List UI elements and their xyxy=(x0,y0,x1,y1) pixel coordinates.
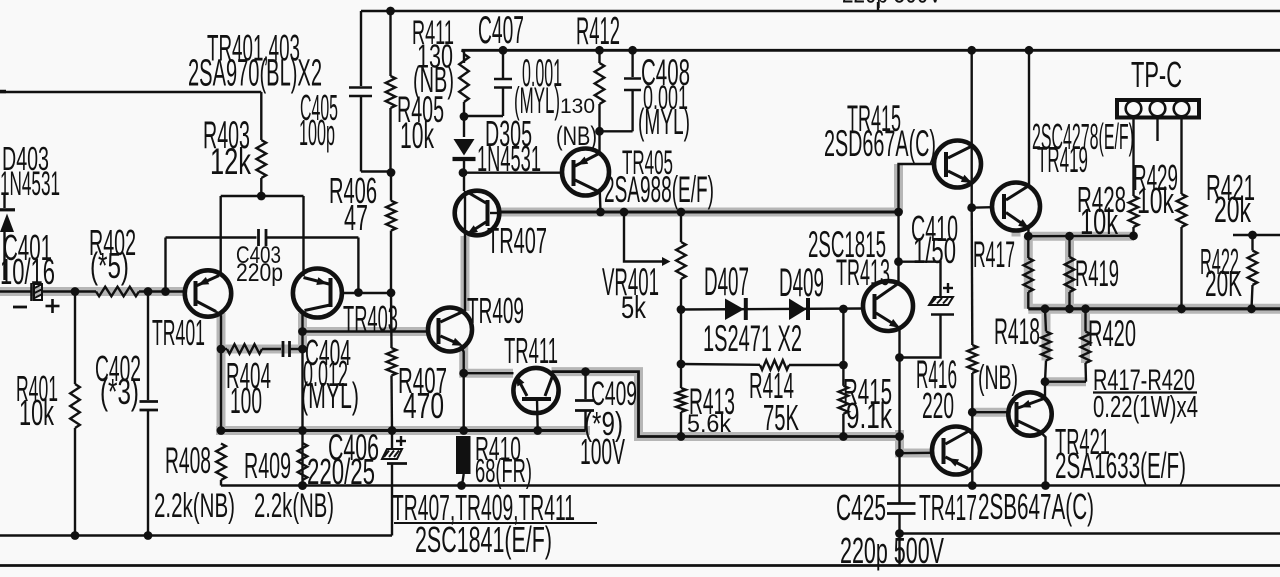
label D409 xyxy=(779,260,824,305)
svg-text:R420: R420 xyxy=(1088,312,1136,354)
wire ground bus left xyxy=(0,534,392,536)
svg-text:100V: 100V xyxy=(580,431,625,472)
wire R418 R420 bottom xyxy=(1045,381,1086,383)
label D403 1N4531 xyxy=(0,141,60,203)
wire rail to TR419 base node xyxy=(967,50,992,212)
test point TP-C xyxy=(1117,100,1199,141)
capacitor C403 xyxy=(166,229,363,297)
transistor TR405 xyxy=(562,131,609,212)
label C410 1/50 xyxy=(911,208,958,271)
diode D305 xyxy=(453,117,476,192)
svg-text:(MYL): (MYL) xyxy=(638,101,690,142)
svg-text:130: 130 xyxy=(560,95,595,118)
svg-text:TR413: TR413 xyxy=(836,251,890,293)
svg-text:1/50: 1/50 xyxy=(913,230,956,271)
resistor R415 xyxy=(839,305,849,437)
resistor R402 xyxy=(71,287,185,297)
label 2SC1815 TR413 xyxy=(808,223,890,293)
resistor R404 xyxy=(217,344,281,354)
label TR403 xyxy=(343,298,398,339)
svg-text:100p: 100p xyxy=(299,112,335,153)
resistor R409 xyxy=(298,443,308,480)
label R429 10k xyxy=(1133,157,1178,221)
highlighted signal path (grey marker trace) xyxy=(0,164,1280,453)
transistor TR413 xyxy=(863,281,913,331)
svg-text:220: 220 xyxy=(922,385,954,426)
svg-text:2SC1841(E/F): 2SC1841(E/F) xyxy=(415,519,552,560)
svg-text:20k: 20k xyxy=(1214,189,1252,230)
label R422 20K xyxy=(1200,241,1242,304)
label TR405 2SA988(E/F) xyxy=(604,144,714,210)
label 220p 500V top clipped xyxy=(842,0,942,9)
svg-text:1S2471 X2: 1S2471 X2 xyxy=(703,317,802,359)
wire TR407 emitter to TR409 xyxy=(464,236,466,311)
wire top rail xyxy=(361,7,1280,16)
svg-text:D409: D409 xyxy=(779,260,824,305)
label D407 xyxy=(704,259,749,304)
transistor TR401 xyxy=(185,270,231,430)
label R418 xyxy=(994,310,1040,352)
resistor R428 xyxy=(1129,117,1139,241)
resistor R406 xyxy=(386,173,396,298)
svg-text:5k: 5k xyxy=(621,289,646,325)
svg-text:R408: R408 xyxy=(165,439,211,481)
svg-text:10k: 10k xyxy=(1137,180,1175,221)
label R419 xyxy=(1075,252,1119,294)
label R408 xyxy=(165,439,211,481)
wire TR413 emitter xyxy=(895,329,932,458)
wire left edge end xyxy=(0,90,6,94)
svg-text:(NB): (NB) xyxy=(413,59,454,100)
svg-text:R418: R418 xyxy=(994,310,1040,352)
wire bottom frame line xyxy=(0,564,1280,567)
label R402 (*5) xyxy=(89,222,136,286)
label C406 220/25 xyxy=(307,426,379,492)
resistor R408 xyxy=(216,444,226,486)
svg-text:(MYL): (MYL) xyxy=(301,375,359,416)
label R411 130 (NB) xyxy=(412,14,454,100)
diode D407 xyxy=(725,298,746,320)
label R417 xyxy=(973,233,1015,275)
label TR409 xyxy=(467,290,524,331)
wire rail bottom right xyxy=(895,529,1280,538)
label TR401,403 2SA970(BL)X2 xyxy=(188,27,322,95)
label C407 value 0.001 (MYL) xyxy=(514,52,562,121)
capacitor C409 xyxy=(575,372,594,431)
label C408 0.001 (MYL) xyxy=(638,51,690,142)
svg-text:2.2k(NB): 2.2k(NB) xyxy=(154,487,235,525)
wire bias line xyxy=(217,426,586,435)
wire TR421 base xyxy=(968,408,1009,417)
label R413 5.6k xyxy=(687,380,735,438)
diode D403 xyxy=(0,193,15,280)
label TR415 2SD667A(C) xyxy=(824,97,936,164)
svg-text:TR407: TR407 xyxy=(487,220,547,261)
resistor R411 xyxy=(459,50,469,121)
wire diode row xyxy=(681,309,863,310)
transistor TR411 xyxy=(513,368,558,431)
resistor R410 fusible xyxy=(456,436,471,490)
wire supply rail xyxy=(462,46,1280,55)
label R416 220 (NB) xyxy=(916,352,1018,426)
label R404 100 xyxy=(226,355,271,421)
label R420 xyxy=(1088,312,1136,354)
svg-text:5.6k: 5.6k xyxy=(687,410,731,438)
capacitor C404 xyxy=(283,341,303,357)
label TR421 2SA1633(E/F) xyxy=(1055,421,1186,486)
label R409 xyxy=(244,445,291,486)
svg-text:470: 470 xyxy=(403,385,444,426)
label TP-C xyxy=(1131,54,1182,95)
wire TR405 base xyxy=(463,171,563,173)
wire VAS row xyxy=(499,208,903,217)
label C409 (*9) 100V xyxy=(580,375,637,472)
capacitor C406 electrolytic xyxy=(382,431,407,536)
capacitor C401 electrolytic xyxy=(0,283,96,301)
resistor R429 xyxy=(1177,117,1187,314)
svg-text:0.22(1W)x4: 0.22(1W)x4 xyxy=(1093,390,1198,424)
resistor R422 xyxy=(1248,235,1258,309)
capacitor C425 xyxy=(887,453,916,564)
svg-text:R419: R419 xyxy=(1075,252,1119,294)
svg-text:10/16: 10/16 xyxy=(0,251,55,292)
svg-text:12k: 12k xyxy=(210,140,251,182)
svg-text:9.1k: 9.1k xyxy=(846,395,893,436)
transistor TR409 xyxy=(428,308,472,431)
label C402 (*3) xyxy=(95,348,141,412)
label TR411 xyxy=(504,330,558,371)
svg-text:(NB): (NB) xyxy=(556,121,597,151)
svg-text:D407: D407 xyxy=(704,259,749,304)
resistor R416 xyxy=(968,208,978,490)
label 2.2k(NB) pair xyxy=(154,487,334,525)
label 2SC4278(E/F) TR419 xyxy=(1032,116,1134,180)
resistor R419 emitter xyxy=(1065,236,1075,309)
svg-text:TR411: TR411 xyxy=(504,330,558,371)
svg-text:2SA1633(E/F): 2SA1633(E/F) xyxy=(1055,445,1186,486)
label R401 10k xyxy=(16,368,58,433)
wire TR409 emitter row xyxy=(459,369,513,378)
wire stub capacitor 220p 500V xyxy=(877,2,879,11)
svg-text:R412: R412 xyxy=(576,10,620,53)
label C407 xyxy=(478,9,524,52)
wire TR411 collector jog xyxy=(552,367,900,441)
capacitor C405 xyxy=(349,11,391,172)
svg-text:2.2k(NB): 2.2k(NB) xyxy=(254,487,334,525)
svg-text:TR401: TR401 xyxy=(152,312,205,353)
svg-text:2SD667A(C): 2SD667A(C) xyxy=(824,122,936,164)
resistor R421 wire xyxy=(1233,231,1280,240)
label TR401 xyxy=(152,312,205,353)
transistor TR415 xyxy=(899,141,982,213)
label R412 xyxy=(576,10,620,53)
label R407 470 xyxy=(398,360,447,426)
transistor TR421 xyxy=(1008,382,1051,490)
svg-text:TP-C: TP-C xyxy=(1131,54,1182,95)
svg-text:100: 100 xyxy=(230,380,262,421)
wire negative rail xyxy=(221,481,1280,490)
svg-text:220p: 220p xyxy=(236,259,283,287)
capacitor C407 xyxy=(464,50,512,116)
node diff-pair emitters junction xyxy=(221,192,304,201)
wire TR419 emitter row xyxy=(1024,232,1134,241)
label TR417 2SB647A(C) xyxy=(919,486,1094,528)
label R410 68(FR) xyxy=(475,431,532,490)
transistor TR417 xyxy=(932,427,980,475)
label R403 12k xyxy=(203,114,251,182)
label TR407 TR409 TR411 group xyxy=(392,487,597,560)
svg-text:R417: R417 xyxy=(973,233,1015,275)
potentiometer VR401 xyxy=(624,212,686,388)
svg-text:(*5): (*5) xyxy=(90,245,129,286)
svg-text:2SB647A(C): 2SB647A(C) xyxy=(978,486,1094,527)
label TR407 xyxy=(487,220,547,261)
resistor R401 xyxy=(70,292,80,540)
svg-text:10k: 10k xyxy=(400,114,434,156)
wire TR401 emitter xyxy=(219,196,221,274)
capacitor C408 xyxy=(600,50,642,131)
capacitor C410 electrolytic xyxy=(899,262,955,358)
label VR401 5k xyxy=(602,261,659,325)
transistor TR407 xyxy=(455,191,500,236)
svg-text:TR417: TR417 xyxy=(919,487,977,528)
label D305 1N4531 xyxy=(477,113,541,179)
resistor R418 xyxy=(1041,309,1051,386)
svg-text:C425: C425 xyxy=(836,487,886,528)
label C405 100p xyxy=(299,87,338,153)
resistor R403 xyxy=(257,140,267,196)
svg-text:10k: 10k xyxy=(19,392,55,433)
label R405 10k xyxy=(397,88,444,156)
svg-text:TR403: TR403 xyxy=(343,298,398,339)
label R415 9.1k xyxy=(843,371,893,436)
label R414 75K xyxy=(749,365,799,438)
svg-text:1N4531: 1N4531 xyxy=(0,165,60,203)
svg-text:47: 47 xyxy=(344,197,368,238)
wire output bus xyxy=(1028,304,1280,313)
svg-text:20K: 20K xyxy=(1205,263,1242,304)
label R428 10k xyxy=(1077,179,1126,242)
wire TR413 collector xyxy=(894,212,903,283)
resistor R407 xyxy=(387,293,397,431)
resistor R414 xyxy=(681,360,848,370)
label 1S2471 X2 xyxy=(703,317,802,359)
svg-text:2SA988(E/F): 2SA988(E/F) xyxy=(604,168,714,210)
label C404 0.012 (MYL) xyxy=(301,332,359,416)
resistor R417 xyxy=(1024,236,1034,309)
transistor TR419 xyxy=(992,50,1040,236)
svg-text:C407: C407 xyxy=(478,9,524,52)
label R417-R420 0.22(1W)x4 xyxy=(1093,365,1198,424)
svg-text:(NB): (NB) xyxy=(978,359,1018,397)
wire top-left horizontal to R403 xyxy=(0,92,261,140)
label C425 220p 500V xyxy=(836,487,944,571)
svg-text:(*3): (*3) xyxy=(100,371,139,412)
label C401 10/16 xyxy=(0,227,55,292)
label R406 47 xyxy=(329,170,377,238)
transistor TR403 xyxy=(293,269,391,490)
resistor R412 xyxy=(595,50,605,135)
svg-text:75K: 75K xyxy=(763,397,799,438)
wire TR403 collector to TR409 base xyxy=(303,330,429,332)
wire TR403 emitter xyxy=(302,196,304,276)
svg-text:R409: R409 xyxy=(244,445,291,486)
label C403 220p xyxy=(236,243,283,287)
capacitor C402 xyxy=(140,292,159,540)
svg-text:TR409: TR409 xyxy=(467,290,524,331)
resistor R405 xyxy=(386,11,396,177)
resistor R420 xyxy=(1081,309,1091,382)
label R412 value 130 (NB) xyxy=(556,95,597,151)
label R421 20k xyxy=(1206,167,1255,230)
polarity marks C401 xyxy=(13,299,60,313)
svg-text:TR419: TR419 xyxy=(1037,139,1088,180)
svg-text:220p 500V: 220p 500V xyxy=(842,0,942,9)
diode D409 xyxy=(789,298,808,320)
resistor R413 xyxy=(676,388,686,437)
